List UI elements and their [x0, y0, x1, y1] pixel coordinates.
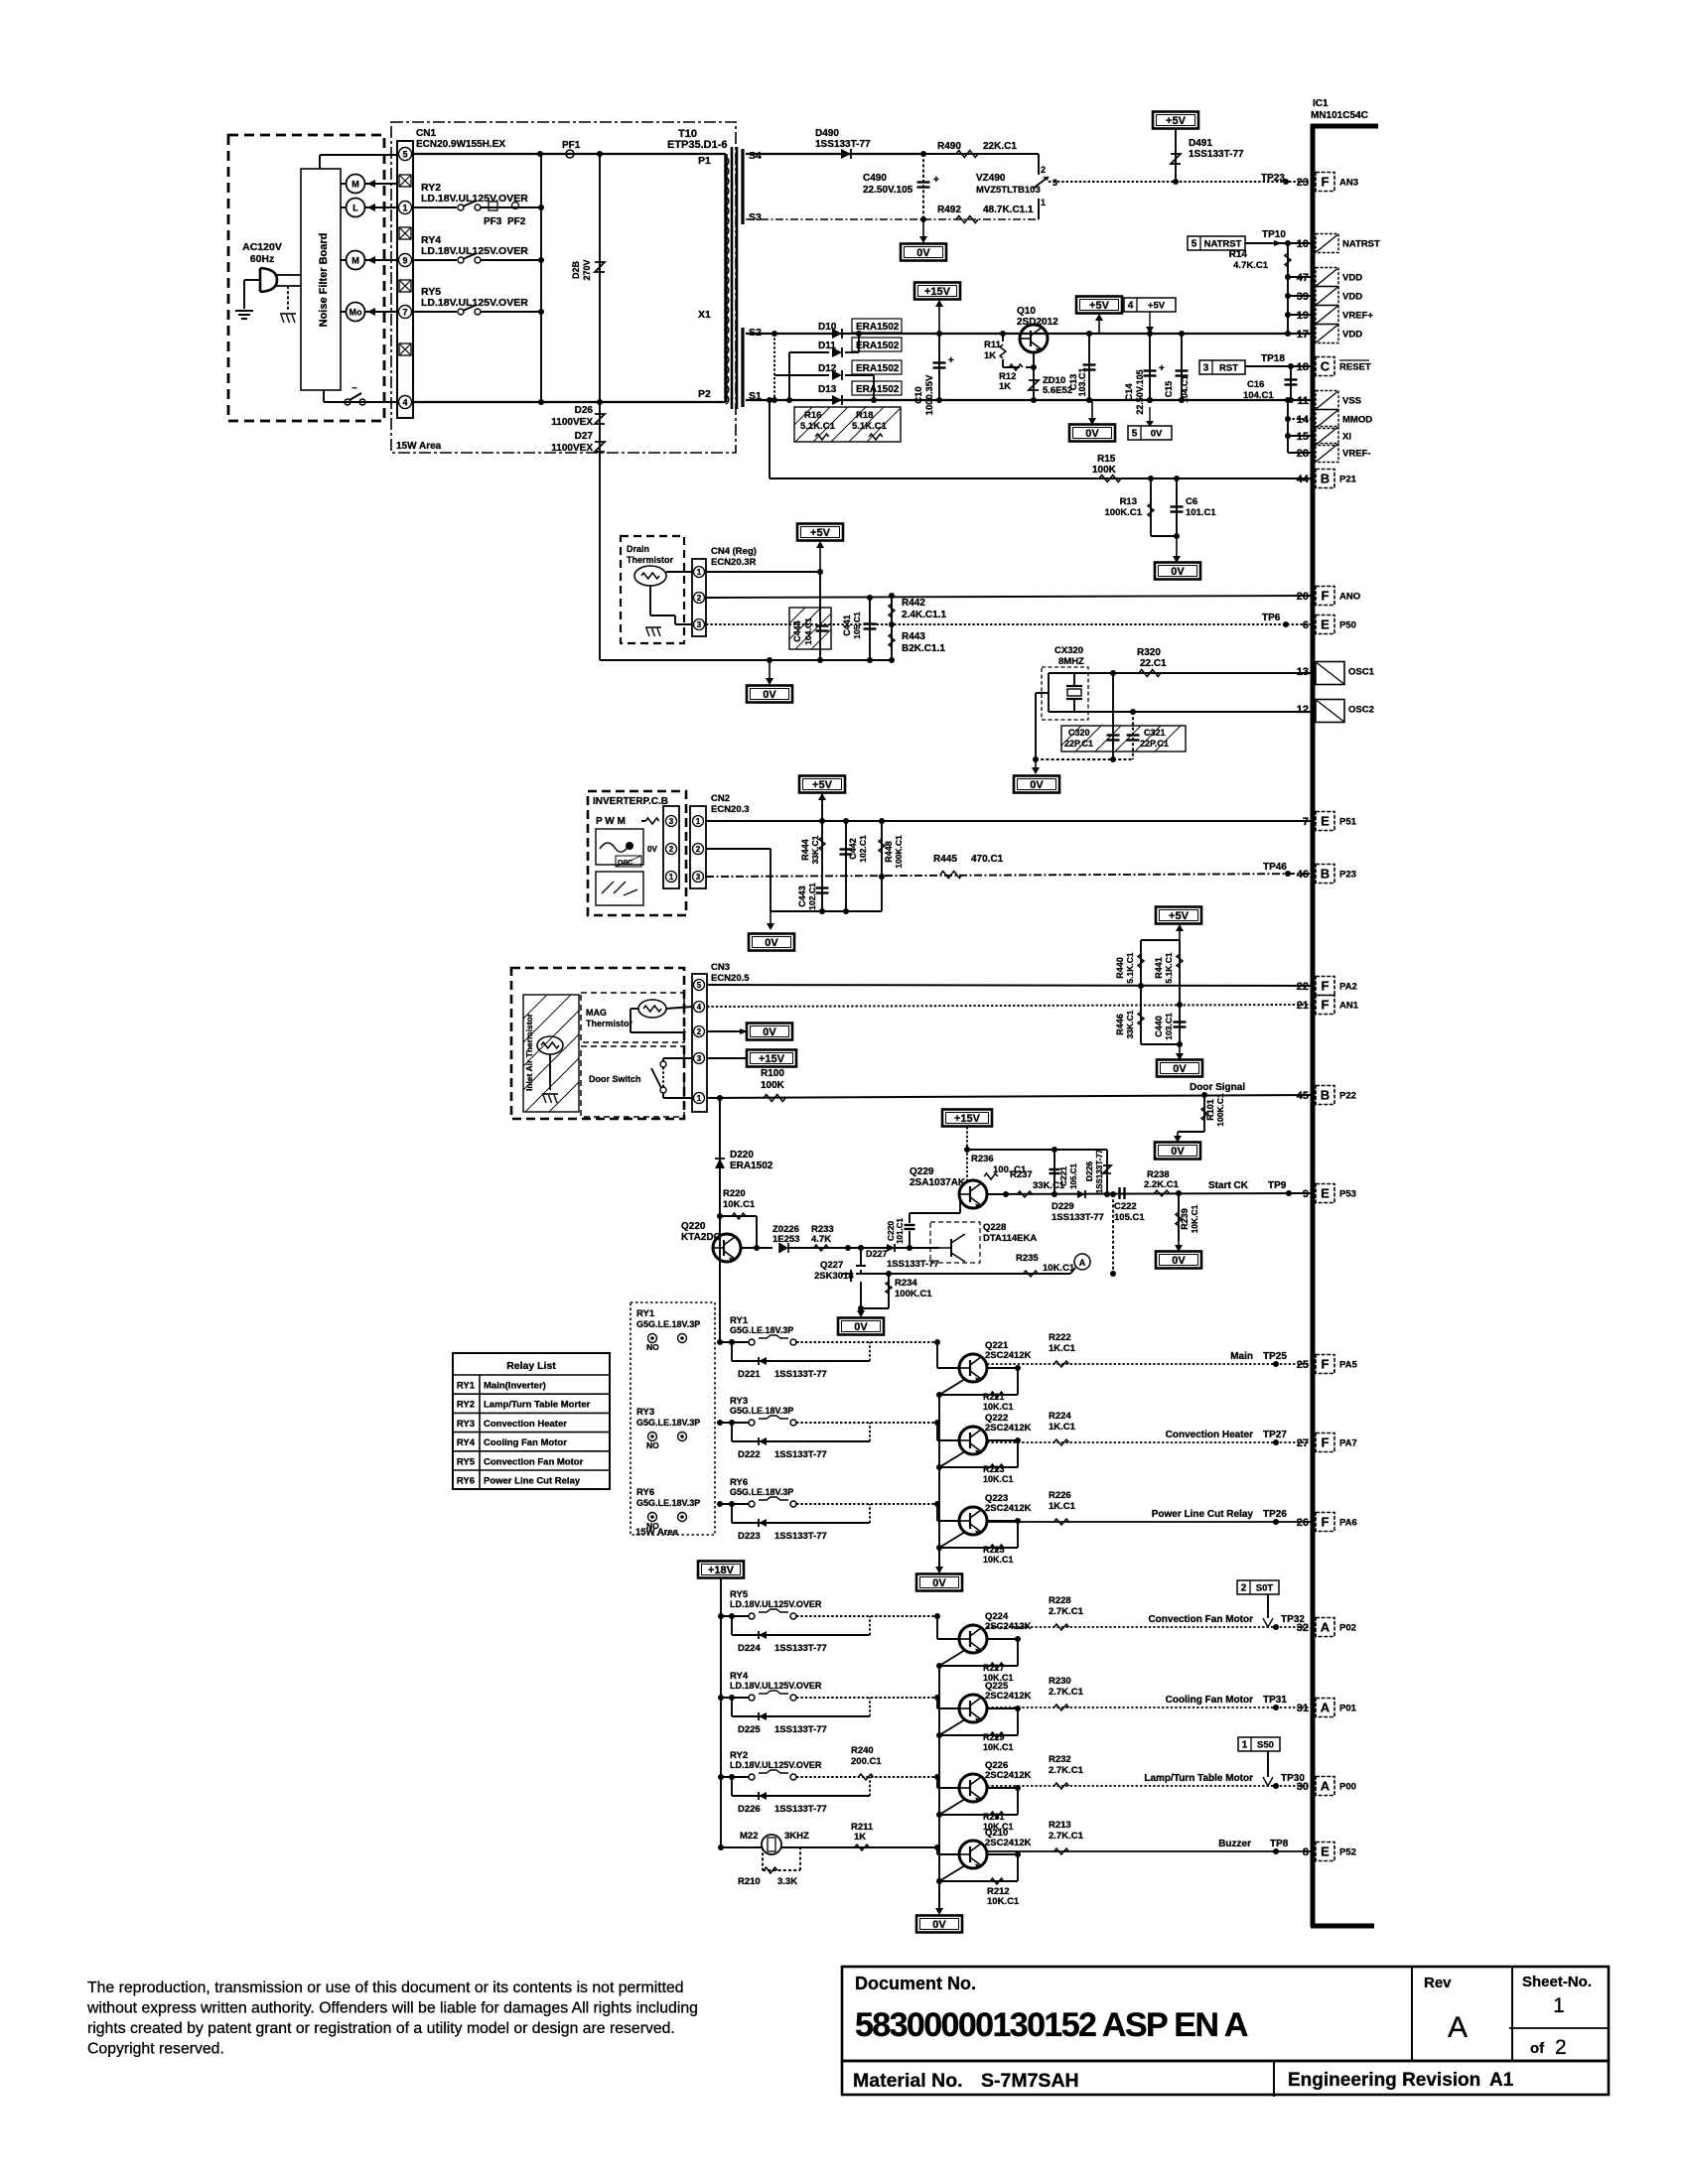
svg-text:RY5: RY5 — [457, 1456, 476, 1467]
svg-text:PA5: PA5 — [1339, 1360, 1357, 1371]
svg-text:CN3: CN3 — [711, 962, 730, 973]
svg-text:R15: R15 — [1097, 454, 1116, 465]
svg-text:R224: R224 — [1049, 1411, 1071, 1422]
svg-text:+: + — [1159, 363, 1165, 374]
svg-text:270V: 270V — [582, 259, 592, 280]
svg-text:Cooling Fan Motor: Cooling Fan Motor — [1166, 1695, 1253, 1706]
svg-text:VREF+: VREF+ — [1342, 311, 1373, 322]
svg-text:R444: R444 — [800, 839, 810, 861]
svg-text:1: 1 — [697, 1094, 702, 1103]
svg-text:M: M — [351, 256, 359, 266]
svg-text:VDD: VDD — [1342, 292, 1362, 303]
svg-text:3: 3 — [697, 620, 702, 629]
svg-text:VDD: VDD — [1342, 330, 1362, 341]
svg-text:6: 6 — [1303, 619, 1309, 631]
svg-text:7: 7 — [402, 308, 407, 318]
svg-text:+5V: +5V — [1169, 910, 1190, 922]
svg-text:INVERTERP.C.B: INVERTERP.C.B — [593, 796, 668, 807]
svg-text:R492: R492 — [937, 205, 961, 215]
svg-text:2.4K.C1.1: 2.4K.C1.1 — [902, 610, 946, 620]
svg-text:CN1: CN1 — [416, 128, 436, 139]
svg-text:ECN20.3: ECN20.3 — [711, 804, 750, 815]
svg-text:0V: 0V — [1171, 566, 1185, 578]
svg-text:R100: R100 — [761, 1068, 784, 1079]
svg-text:ECN20.5: ECN20.5 — [711, 973, 750, 984]
svg-text:XI: XI — [1342, 432, 1351, 443]
svg-text:2: 2 — [669, 845, 674, 854]
svg-text:200.C1: 200.C1 — [851, 1756, 882, 1767]
svg-text:rights created by patent grant: rights created by patent grant or regist… — [87, 2020, 675, 2037]
svg-text:0V: 0V — [647, 845, 657, 854]
svg-text:102.C1: 102.C1 — [807, 883, 817, 910]
svg-text:48.7K.C1.1: 48.7K.C1.1 — [983, 205, 1034, 215]
svg-text:IC1: IC1 — [1313, 98, 1329, 109]
svg-text:20: 20 — [1297, 591, 1309, 603]
svg-text:G5G.LE.18V.3P: G5G.LE.18V.3P — [730, 1406, 793, 1416]
svg-text:R222: R222 — [1049, 1332, 1071, 1343]
svg-text:C440: C440 — [1154, 1016, 1164, 1037]
svg-text:0V: 0V — [932, 1919, 946, 1931]
svg-text:R225: R225 — [983, 1545, 1005, 1555]
svg-text:2SC2412K: 2SC2412K — [985, 1770, 1032, 1781]
svg-text:D227: D227 — [866, 1249, 888, 1259]
svg-text:R223: R223 — [983, 1464, 1005, 1474]
svg-text:R320: R320 — [1137, 647, 1161, 658]
svg-text:R446: R446 — [1115, 1014, 1125, 1035]
svg-text:1: 1 — [696, 817, 701, 826]
svg-text:R14: R14 — [1229, 249, 1248, 260]
svg-text:R236: R236 — [971, 1154, 994, 1164]
svg-text:R210: R210 — [738, 1876, 761, 1887]
svg-text:F: F — [1322, 979, 1330, 994]
svg-text:R18: R18 — [856, 410, 873, 421]
svg-text:R230: R230 — [1049, 1676, 1071, 1687]
svg-text:+15V: +15V — [759, 1053, 785, 1065]
svg-text:10K.C1: 10K.C1 — [723, 1199, 756, 1210]
svg-text:B: B — [1321, 867, 1330, 882]
svg-text:S50: S50 — [1257, 1740, 1274, 1751]
svg-text:105.C1: 105.C1 — [1114, 1212, 1145, 1223]
svg-text:2: 2 — [1241, 1583, 1247, 1594]
svg-text:0V: 0V — [916, 247, 930, 259]
svg-text:103.C1: 103.C1 — [1164, 1013, 1174, 1040]
svg-text:2.7K.C1: 2.7K.C1 — [1049, 1765, 1084, 1776]
svg-text:0V: 0V — [1085, 428, 1099, 440]
svg-text:2.7K.C1: 2.7K.C1 — [1049, 1687, 1084, 1698]
svg-text:OSC2: OSC2 — [1348, 705, 1374, 716]
svg-text:P21: P21 — [1339, 475, 1357, 485]
svg-text:NO: NO — [646, 1342, 659, 1352]
svg-text:C443: C443 — [797, 886, 807, 907]
svg-text:TP10: TP10 — [1262, 229, 1286, 240]
svg-text:MAG: MAG — [586, 1008, 607, 1018]
svg-text:G5G.LE.18V.3P: G5G.LE.18V.3P — [730, 1325, 793, 1335]
svg-text:R442: R442 — [902, 598, 925, 609]
svg-text:R237: R237 — [1010, 1169, 1033, 1180]
svg-text:+5V: +5V — [1148, 301, 1166, 312]
svg-text:Relay List: Relay List — [506, 1360, 556, 1372]
svg-text:1: 1 — [1041, 198, 1046, 207]
svg-text:1K: 1K — [854, 1832, 866, 1843]
svg-text:G5G.LE.18V.3P: G5G.LE.18V.3P — [636, 1319, 700, 1329]
svg-text:2SK3018: 2SK3018 — [814, 1271, 854, 1282]
svg-text:Document No.: Document No. — [855, 1974, 976, 1993]
svg-text:P1: P1 — [698, 155, 711, 167]
svg-text:8MHZ: 8MHZ — [1058, 656, 1084, 667]
svg-text:C222: C222 — [1114, 1201, 1137, 1212]
svg-text:A: A — [1321, 1620, 1331, 1635]
svg-text:Drain: Drain — [627, 544, 649, 554]
svg-text:100K: 100K — [1092, 465, 1117, 476]
svg-text:RY4: RY4 — [457, 1437, 476, 1448]
svg-text:1: 1 — [669, 873, 674, 882]
svg-text:C: C — [1321, 359, 1331, 374]
svg-text:R101: R101 — [1205, 1099, 1215, 1121]
svg-text:RY1: RY1 — [636, 1308, 655, 1319]
svg-text:Door Signal: Door Signal — [1190, 1082, 1245, 1093]
svg-text:D225: D225 — [738, 1724, 761, 1735]
svg-text:F: F — [1322, 1357, 1330, 1372]
svg-text:25: 25 — [1297, 1359, 1309, 1371]
svg-text:33K.C1: 33K.C1 — [810, 835, 820, 864]
svg-text:C444: C444 — [792, 620, 802, 642]
svg-text:100K.C1: 100K.C1 — [1105, 507, 1143, 518]
svg-text:E: E — [1321, 1844, 1330, 1859]
svg-text:P2: P2 — [698, 388, 711, 400]
svg-text:A: A — [1079, 1258, 1086, 1268]
svg-text:D27: D27 — [575, 431, 594, 442]
svg-text:F: F — [1322, 1435, 1330, 1450]
svg-text:0V: 0V — [854, 1321, 868, 1333]
svg-text:2.7K.C1: 2.7K.C1 — [1049, 1831, 1084, 1842]
svg-text:1SS133T-77: 1SS133T-77 — [1052, 1212, 1104, 1223]
svg-text:1K.C1: 1K.C1 — [1049, 1501, 1076, 1512]
svg-text:R445: R445 — [933, 854, 957, 865]
svg-text:R448: R448 — [884, 841, 894, 863]
svg-text:23: 23 — [1297, 177, 1309, 189]
svg-text:31: 31 — [1297, 1703, 1309, 1714]
svg-text:9: 9 — [402, 256, 407, 266]
svg-text:22.C1: 22.C1 — [1140, 658, 1167, 669]
svg-text:+: + — [948, 355, 954, 366]
svg-text:C441: C441 — [842, 614, 852, 636]
svg-text:M: M — [351, 180, 359, 190]
svg-text:Q220: Q220 — [681, 1221, 706, 1232]
svg-text:5.1K.C1: 5.1K.C1 — [1164, 952, 1174, 983]
svg-text:4.7K.C1: 4.7K.C1 — [1233, 260, 1269, 271]
svg-text:D221: D221 — [738, 1369, 761, 1380]
svg-text:3: 3 — [669, 817, 674, 826]
svg-text:2.2K.C1: 2.2K.C1 — [1144, 1179, 1180, 1190]
svg-text:R213: R213 — [1049, 1820, 1071, 1831]
svg-text:0V: 0V — [763, 1026, 776, 1038]
svg-text:Thermistor: Thermistor — [586, 1019, 633, 1028]
svg-text:TP25: TP25 — [1263, 1351, 1287, 1362]
svg-text:+15V: +15V — [924, 286, 951, 298]
svg-text:101.C1: 101.C1 — [1186, 507, 1216, 518]
svg-text:TP31: TP31 — [1263, 1695, 1287, 1706]
svg-text:22P.C1: 22P.C1 — [1140, 739, 1169, 749]
svg-text:C321: C321 — [1144, 728, 1166, 738]
svg-text:Thermistor: Thermistor — [627, 555, 674, 565]
svg-text:R240: R240 — [851, 1745, 874, 1756]
svg-text:RY3: RY3 — [457, 1419, 475, 1430]
svg-text:D220: D220 — [730, 1150, 754, 1160]
svg-text:5.1K.C1: 5.1K.C1 — [852, 421, 888, 432]
svg-text:27: 27 — [1297, 1437, 1309, 1449]
svg-text:R227: R227 — [983, 1663, 1005, 1673]
svg-text:15W Area: 15W Area — [635, 1527, 679, 1538]
svg-text:1K.C1: 1K.C1 — [1049, 1422, 1076, 1433]
svg-text:4: 4 — [697, 1003, 702, 1012]
svg-text:without express written autho: without express written authority. Offen… — [86, 2000, 698, 2017]
svg-text:0V: 0V — [1172, 1255, 1186, 1267]
svg-text:AN1: AN1 — [1339, 1001, 1359, 1012]
svg-text:1SS133T-77: 1SS133T-77 — [774, 1449, 827, 1460]
svg-text:22.50V.105: 22.50V.105 — [863, 185, 913, 196]
svg-text:1SS133T-77: 1SS133T-77 — [774, 1643, 827, 1654]
svg-text:100K.C1: 100K.C1 — [895, 1289, 932, 1299]
svg-text:3: 3 — [1203, 363, 1209, 374]
svg-text:S4: S4 — [749, 150, 762, 162]
svg-text:R13: R13 — [1120, 496, 1137, 507]
svg-text:21: 21 — [1297, 1000, 1309, 1012]
svg-text:2SC2412K: 2SC2412K — [985, 1691, 1032, 1702]
svg-text:ERA1502: ERA1502 — [730, 1160, 773, 1171]
svg-text:1E253: 1E253 — [772, 1234, 799, 1245]
svg-text:Q227: Q227 — [820, 1260, 843, 1271]
svg-text:1K: 1K — [984, 350, 996, 361]
svg-text:R11: R11 — [984, 340, 1002, 350]
svg-text:10K.C1: 10K.C1 — [983, 1402, 1014, 1412]
svg-text:58300000130152 ASP EN A: 58300000130152 ASP EN A — [855, 2006, 1248, 2044]
svg-text:D229: D229 — [1052, 1201, 1074, 1212]
svg-text:2SC2412K: 2SC2412K — [985, 1423, 1032, 1433]
svg-text:TP8: TP8 — [1270, 1839, 1289, 1849]
svg-text:1SS133T-77: 1SS133T-77 — [774, 1531, 827, 1542]
svg-text:12: 12 — [1297, 704, 1309, 716]
svg-text:LD.18V.UL125V.OVER: LD.18V.UL125V.OVER — [421, 297, 528, 309]
svg-text:Sheet-No.: Sheet-No. — [1522, 1974, 1592, 1990]
svg-text:R16: R16 — [804, 410, 821, 421]
svg-text:22.50V.105: 22.50V.105 — [1135, 369, 1145, 414]
svg-text:D224: D224 — [738, 1643, 761, 1654]
svg-text:C442: C442 — [848, 838, 858, 860]
svg-text:Material No.: Material No. — [853, 2070, 963, 2092]
svg-text:PA2: PA2 — [1339, 982, 1357, 993]
svg-text:R440: R440 — [1115, 957, 1125, 979]
svg-text:0V: 0V — [1030, 779, 1044, 791]
svg-text:TP32: TP32 — [1281, 1614, 1305, 1625]
svg-text:PA7: PA7 — [1339, 1438, 1357, 1449]
svg-text:R226: R226 — [1049, 1490, 1071, 1501]
svg-text:5: 5 — [402, 150, 407, 160]
svg-text:Q228: Q228 — [983, 1222, 1006, 1233]
svg-text:S3: S3 — [749, 211, 762, 223]
svg-text:R443: R443 — [902, 631, 925, 642]
svg-text:R235: R235 — [1016, 1253, 1039, 1264]
svg-text:1K: 1K — [999, 381, 1011, 392]
svg-text:1: 1 — [697, 568, 702, 577]
svg-text:F: F — [1322, 998, 1330, 1013]
svg-text:28: 28 — [1297, 448, 1309, 460]
svg-text:A1: A1 — [1489, 2070, 1514, 2091]
svg-text:Power Line Cut Relay: Power Line Cut Relay — [484, 1476, 581, 1487]
svg-text:AN3: AN3 — [1339, 178, 1358, 189]
svg-text:5.1K.C1: 5.1K.C1 — [1125, 952, 1135, 983]
svg-text:2SC2412K: 2SC2412K — [985, 1350, 1032, 1361]
svg-text:5: 5 — [1192, 239, 1197, 250]
svg-text:Buzzer: Buzzer — [1218, 1839, 1251, 1849]
svg-text:KTA2DC: KTA2DC — [681, 1232, 721, 1243]
svg-text:1100VEX: 1100VEX — [551, 443, 593, 454]
svg-text:8: 8 — [1303, 1846, 1309, 1858]
svg-text:Rev: Rev — [1424, 1975, 1452, 1991]
svg-text:10K.C1: 10K.C1 — [1190, 1204, 1199, 1233]
svg-text:1000.35V: 1000.35V — [924, 374, 935, 415]
svg-text:OSC1: OSC1 — [1348, 667, 1375, 678]
svg-text:C16: C16 — [1247, 379, 1264, 390]
svg-text:VSS: VSS — [1342, 396, 1361, 407]
svg-text:2: 2 — [697, 1027, 702, 1036]
svg-text:Cooling Fan Motor: Cooling Fan Motor — [484, 1437, 567, 1448]
svg-text:F: F — [1322, 175, 1330, 190]
svg-text:M22: M22 — [740, 1831, 758, 1842]
svg-text:470.C1: 470.C1 — [971, 854, 1004, 865]
svg-text:4.7K: 4.7K — [811, 1234, 831, 1245]
svg-text:60Hz: 60Hz — [250, 253, 275, 265]
svg-text:PA6: PA6 — [1339, 1518, 1357, 1529]
svg-text:Convection Fan Motor: Convection Fan Motor — [1148, 1614, 1253, 1625]
svg-text:0V: 0V — [765, 937, 778, 949]
svg-text:R232: R232 — [1049, 1754, 1071, 1765]
svg-text:TP23: TP23 — [1261, 173, 1285, 184]
svg-text:18: 18 — [1297, 361, 1309, 373]
svg-text:+: + — [933, 175, 939, 186]
svg-text:105.C1: 105.C1 — [852, 612, 862, 639]
svg-text:Mo: Mo — [350, 308, 362, 318]
svg-text:Q10: Q10 — [1017, 306, 1036, 317]
svg-text:P53: P53 — [1339, 1189, 1356, 1200]
svg-text:15: 15 — [1297, 431, 1309, 443]
svg-text:A: A — [1448, 2011, 1468, 2044]
svg-text:5.1K.C1: 5.1K.C1 — [800, 421, 836, 432]
svg-text:Main: Main — [1230, 1351, 1253, 1362]
svg-text:33K.C1: 33K.C1 — [1033, 1180, 1065, 1191]
svg-text:Q229: Q229 — [910, 1166, 934, 1177]
svg-text:0V: 0V — [1173, 1063, 1187, 1075]
svg-text:D2B: D2B — [571, 261, 581, 280]
svg-text:2SD2012: 2SD2012 — [1017, 317, 1058, 328]
svg-text:Engineering Revision: Engineering Revision — [1288, 2070, 1480, 2091]
svg-text:Lamp/Turn Table Motor: Lamp/Turn Table Motor — [1144, 1773, 1253, 1784]
svg-text:X1: X1 — [698, 309, 711, 321]
svg-text:19: 19 — [1297, 310, 1309, 322]
svg-text:C220: C220 — [886, 1221, 896, 1242]
svg-text:Start CK: Start CK — [1208, 1180, 1249, 1191]
svg-text:+5V: +5V — [1089, 300, 1110, 312]
svg-text:Convection Heater: Convection Heater — [1166, 1430, 1253, 1440]
svg-text:G5G.LE.18V.3P: G5G.LE.18V.3P — [636, 1498, 700, 1508]
svg-text:P50: P50 — [1339, 620, 1356, 631]
svg-text:R490: R490 — [937, 141, 961, 152]
svg-text:2SC2412K: 2SC2412K — [985, 1838, 1032, 1848]
svg-text:G5G.LE.18V.3P: G5G.LE.18V.3P — [636, 1418, 700, 1428]
svg-text:MVZ5TLTB103: MVZ5TLTB103 — [976, 185, 1041, 196]
svg-text:RY2: RY2 — [457, 1400, 475, 1411]
svg-text:3KHZ: 3KHZ — [784, 1831, 809, 1842]
svg-text:ANO: ANO — [1339, 592, 1360, 603]
svg-text:OSC: OSC — [618, 860, 632, 867]
svg-text:RY1: RY1 — [457, 1381, 476, 1392]
svg-text:P22: P22 — [1339, 1091, 1356, 1102]
svg-text:Convection Fan Motor: Convection Fan Motor — [484, 1456, 584, 1467]
svg-text:R221: R221 — [983, 1392, 1005, 1402]
svg-text:DTA114EKA: DTA114EKA — [983, 1233, 1037, 1244]
svg-text:TP46: TP46 — [1263, 862, 1287, 873]
svg-text:D491: D491 — [1189, 138, 1212, 149]
svg-text:AC120V: AC120V — [242, 241, 282, 253]
svg-text:2.7K.C1: 2.7K.C1 — [1049, 1606, 1084, 1617]
svg-text:E: E — [1321, 617, 1330, 632]
svg-text:Convection Heater: Convection Heater — [484, 1419, 567, 1430]
svg-text:C6: C6 — [1186, 496, 1197, 507]
svg-text:10K.C1: 10K.C1 — [1043, 1263, 1075, 1274]
svg-text:of: of — [1530, 2040, 1545, 2057]
svg-text:44: 44 — [1297, 474, 1310, 485]
svg-text:LD.18V.UL125V.OVER: LD.18V.UL125V.OVER — [730, 1760, 822, 1770]
svg-text:LD.18V.UL125V.OVER: LD.18V.UL125V.OVER — [730, 1599, 822, 1609]
svg-text:2: 2 — [1041, 165, 1046, 175]
svg-text:26: 26 — [1297, 1517, 1309, 1529]
svg-text:VZ490: VZ490 — [976, 173, 1006, 184]
svg-text:R229: R229 — [983, 1732, 1005, 1742]
svg-text:P01: P01 — [1339, 1704, 1357, 1714]
svg-text:RESET: RESET — [1339, 362, 1371, 373]
svg-text:TP9: TP9 — [1268, 1180, 1287, 1191]
svg-text:The reproduction, transmission: The reproduction, transmission or use of… — [87, 1979, 684, 1996]
svg-text:P23: P23 — [1339, 870, 1356, 881]
svg-text:E: E — [1321, 1186, 1330, 1201]
svg-text:2SA1037AK: 2SA1037AK — [910, 1177, 966, 1188]
svg-text:PF3: PF3 — [484, 216, 502, 227]
svg-text:101.C1: 101.C1 — [896, 1218, 905, 1244]
svg-text:102.C1: 102.C1 — [858, 835, 868, 863]
svg-text:10K.C1: 10K.C1 — [987, 1896, 1020, 1907]
svg-text:P02: P02 — [1339, 1623, 1356, 1634]
svg-text:Noise Filter Board: Noise Filter Board — [318, 233, 330, 328]
svg-text:L: L — [352, 204, 358, 213]
svg-text:10K.C1: 10K.C1 — [983, 1474, 1014, 1484]
svg-text:3: 3 — [697, 1054, 702, 1063]
svg-text:ERA1502: ERA1502 — [856, 363, 900, 374]
svg-text:+5V: +5V — [810, 527, 831, 539]
svg-text:C10: C10 — [913, 386, 924, 403]
svg-text:F: F — [1322, 589, 1330, 604]
svg-text:22: 22 — [1297, 981, 1309, 993]
svg-text:14: 14 — [1297, 414, 1310, 426]
svg-text:LD.18V.UL125V.OVER: LD.18V.UL125V.OVER — [421, 245, 528, 257]
svg-text:10: 10 — [1297, 238, 1309, 250]
svg-text:3: 3 — [696, 873, 701, 882]
svg-text:1SS133T-77: 1SS133T-77 — [774, 1724, 827, 1735]
svg-text:39: 39 — [1297, 291, 1309, 303]
svg-text:A: A — [1321, 1701, 1331, 1715]
svg-text:103.C1: 103.C1 — [1077, 367, 1087, 396]
svg-text:RY6: RY6 — [457, 1476, 475, 1487]
svg-text:47: 47 — [1297, 272, 1309, 284]
svg-text:CN4 (Reg): CN4 (Reg) — [711, 546, 757, 557]
